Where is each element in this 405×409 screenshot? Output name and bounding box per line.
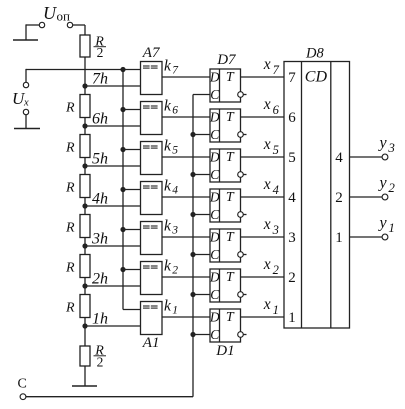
svg-text:5h: 5h: [92, 151, 108, 168]
svg-text:6: 6: [288, 110, 296, 126]
svg-text:7h: 7h: [92, 71, 108, 88]
resistor R4: [80, 215, 90, 238]
svg-text:T: T: [226, 190, 235, 205]
svg-text:C: C: [210, 127, 220, 142]
svg-text:6: 6: [172, 105, 178, 117]
wire Ux bus vertical: [122, 70, 124, 310]
wire clock to D2 C input: [193, 294, 210, 296]
comparator A6: [141, 102, 163, 135]
svg-text:k: k: [164, 98, 172, 115]
wire Ux drop: [25, 69, 27, 82]
svg-text:D8: D8: [305, 46, 324, 62]
junction node 5h: [82, 163, 87, 168]
svg-text:1: 1: [335, 230, 343, 246]
svg-text:C: C: [210, 327, 220, 342]
wire x6 flip-flop output: [241, 116, 285, 118]
flip-flop D3: [210, 229, 241, 262]
svg-text:R: R: [65, 221, 75, 236]
flip-flop D5: [210, 149, 241, 182]
comparator A1: [141, 302, 163, 335]
svg-text:1h: 1h: [92, 311, 108, 328]
junction node 3h: [82, 243, 87, 248]
svg-text:3: 3: [387, 140, 395, 155]
junction Ux bus row 6: [120, 107, 125, 112]
svg-text:4: 4: [273, 183, 279, 197]
svg-text:1: 1: [388, 220, 395, 235]
wire clock to D7 C input: [193, 94, 210, 96]
priority encoder D8 body: [284, 62, 350, 329]
svg-text:D: D: [209, 310, 220, 325]
junction node 2h: [82, 283, 87, 288]
svg-text:7: 7: [172, 65, 179, 77]
svg-text:2: 2: [388, 180, 395, 195]
inverted output bubble D2: [243, 294, 246, 296]
svg-text:3: 3: [288, 230, 296, 246]
wire k2 comparator output: [162, 276, 210, 278]
junction Ux bus row 3: [120, 227, 125, 232]
svg-text:R: R: [65, 181, 75, 196]
svg-text:7: 7: [288, 70, 296, 86]
wire clock bus horizontal: [26, 396, 193, 398]
ground (Ux): [14, 128, 40, 130]
resistor R2: [80, 295, 90, 318]
junction Ux bus row 7: [120, 67, 125, 72]
resistor R6: [80, 135, 90, 158]
svg-text:T: T: [226, 150, 235, 165]
svg-text:k: k: [164, 138, 172, 155]
svg-text:1: 1: [273, 303, 279, 317]
svg-text:2: 2: [97, 354, 104, 369]
wire Ux bus to comparator A5: [123, 149, 141, 151]
resistor R/2 top: [80, 35, 90, 57]
svg-text:5: 5: [172, 145, 178, 157]
svg-text:k: k: [164, 258, 172, 275]
wire Ux bus to comparator A3: [123, 229, 141, 231]
svg-text:x: x: [263, 216, 271, 233]
wire Ux bus to comparator A2: [123, 269, 141, 271]
junction node 6h: [82, 123, 87, 128]
wire Uop left to ground: [26, 24, 39, 26]
svg-text:T: T: [226, 70, 235, 85]
svg-text:4: 4: [172, 185, 178, 197]
svg-text:T: T: [226, 310, 235, 325]
inverted output bubble D4: [243, 214, 246, 216]
flip-flop D1: [210, 309, 241, 342]
svg-text:C: C: [210, 287, 220, 302]
svg-text:y: y: [378, 215, 388, 232]
wire clock bus vertical: [192, 95, 194, 397]
svg-text:D7: D7: [216, 52, 237, 68]
junction clock bus row 1: [190, 332, 195, 337]
wire Ux horizontal: [26, 69, 123, 71]
svg-text:5: 5: [273, 143, 279, 157]
wire Ux bus to comparator A4: [123, 189, 141, 191]
wire k7 comparator output: [162, 76, 210, 78]
svg-text:T: T: [226, 230, 235, 245]
svg-text:D: D: [209, 150, 220, 165]
junction clock bus row 6: [190, 132, 195, 137]
svg-text:k: k: [164, 298, 172, 315]
wire ladder vertical: [84, 25, 86, 386]
wire k6 comparator output: [162, 116, 210, 118]
wire Ux bus to comparator A7: [123, 69, 141, 71]
wire Ux bus to comparator A1: [123, 309, 141, 311]
comparator A7: [141, 62, 163, 95]
comparator A3: [141, 222, 163, 255]
svg-text:C: C: [210, 87, 220, 102]
terminal Uop right: [67, 22, 72, 27]
wire y1 output: [350, 236, 383, 238]
flip-flop D6: [210, 109, 241, 142]
wire k5 comparator output: [162, 156, 210, 158]
svg-text:3: 3: [171, 225, 178, 237]
wire tap 1h to comparator: [85, 325, 141, 327]
wire k1 comparator output: [162, 316, 210, 318]
junction Ux bus row 5: [120, 147, 125, 152]
ground (bottom): [72, 385, 97, 387]
svg-text:2: 2: [97, 45, 104, 60]
svg-text:CD: CD: [305, 69, 328, 86]
wire clock to D1 C input: [193, 334, 210, 336]
svg-text:k: k: [164, 178, 172, 195]
wire clock to D4 C input: [193, 214, 210, 216]
svg-text:x: x: [263, 56, 271, 73]
svg-text:A7: A7: [142, 45, 161, 61]
svg-text:D: D: [209, 190, 220, 205]
wire Uop right to ladder: [73, 24, 85, 26]
svg-text:U: U: [43, 3, 57, 23]
junction clock bus row 2: [190, 292, 195, 297]
svg-text:C: C: [210, 167, 220, 182]
wire x4 flip-flop output: [241, 196, 285, 198]
wire x3 flip-flop output: [241, 236, 285, 238]
wire y2 output: [350, 196, 383, 198]
svg-text:x: x: [263, 96, 271, 113]
svg-text:1: 1: [172, 305, 178, 317]
svg-text:7: 7: [273, 63, 280, 77]
junction Ux bus row 2: [120, 267, 125, 272]
resistor R7: [80, 95, 90, 118]
wire tap 6h to comparator: [85, 125, 141, 127]
svg-text:4: 4: [288, 190, 296, 206]
wire Ux bottom to ground: [25, 115, 27, 129]
wire x1 flip-flop output: [241, 316, 285, 318]
flip-flop D4: [210, 189, 241, 222]
wire tap 3h to comparator: [85, 245, 141, 247]
svg-text:2: 2: [335, 190, 343, 206]
wire k4 comparator output: [162, 196, 210, 198]
comparator A5: [141, 142, 163, 175]
wire Ux bus to comparator A6: [123, 109, 141, 111]
terminal Ux top: [23, 82, 28, 87]
terminal y2: [382, 194, 388, 200]
svg-text:2h: 2h: [92, 271, 108, 288]
svg-text:R: R: [65, 141, 75, 156]
junction node 7h: [82, 83, 87, 88]
comparator A2: [141, 262, 163, 295]
junction node 4h: [82, 203, 87, 208]
svg-text:1: 1: [288, 310, 296, 326]
junction clock bus row 5: [190, 172, 195, 177]
wire clock to D3 C input: [193, 254, 210, 256]
resistor R3: [80, 255, 90, 278]
svg-text:y: y: [378, 175, 388, 192]
terminal y3: [382, 154, 388, 160]
junction Ux bus row 4: [120, 187, 125, 192]
wire y3 output: [350, 156, 383, 158]
svg-text:4: 4: [335, 150, 343, 166]
svg-text:D: D: [209, 70, 220, 85]
wire x2 flip-flop output: [241, 276, 285, 278]
terminal C: [20, 394, 26, 400]
svg-text:C: C: [210, 207, 220, 222]
svg-text:D1: D1: [215, 343, 234, 359]
flip-flop D7: [210, 69, 241, 102]
svg-text:D: D: [209, 110, 220, 125]
svg-text:k: k: [164, 58, 172, 75]
svg-text:x: x: [263, 296, 271, 313]
svg-text:A1: A1: [142, 335, 160, 351]
wire clock to D6 C input: [193, 134, 210, 136]
comparator A4: [141, 182, 163, 215]
resistor R5: [80, 175, 90, 198]
svg-text:3h: 3h: [91, 231, 108, 248]
svg-text:y: y: [378, 135, 388, 152]
svg-text:6h: 6h: [92, 111, 108, 128]
resistor R/2 bottom: [80, 346, 90, 366]
svg-text:x: x: [263, 256, 271, 273]
inverted output bubble D7: [243, 94, 246, 96]
junction node 1h: [82, 323, 87, 328]
junction clock bus row 3: [190, 252, 195, 257]
svg-text:D: D: [209, 230, 220, 245]
svg-text:C: C: [18, 377, 27, 392]
flip-flop D2: [210, 269, 241, 302]
svg-text:2: 2: [273, 263, 279, 277]
svg-text:5: 5: [288, 150, 296, 166]
wire k3 comparator output: [162, 236, 210, 238]
wire clock to D5 C input: [193, 174, 210, 176]
terminal Uop left: [39, 22, 44, 27]
terminal y1: [382, 234, 388, 240]
wire x7 flip-flop output: [241, 76, 285, 78]
wire tap 4h to comparator: [85, 205, 141, 207]
svg-text:x: x: [23, 98, 29, 109]
svg-text:x: x: [263, 136, 271, 153]
svg-text:R: R: [65, 261, 75, 276]
wire tap 5h to comparator: [85, 165, 141, 167]
svg-text:4h: 4h: [92, 191, 108, 208]
wire tap 2h to comparator: [85, 285, 141, 287]
svg-text:x: x: [263, 176, 271, 193]
svg-text:T: T: [226, 110, 235, 125]
svg-text:6: 6: [273, 103, 280, 117]
inverted output bubble D5: [243, 174, 246, 176]
inverted output bubble D1: [243, 334, 246, 336]
wire tap 7h to comparator: [85, 85, 141, 87]
inverted output bubble D6: [243, 134, 246, 136]
svg-text:2: 2: [288, 270, 296, 286]
wire x5 flip-flop output: [241, 156, 285, 158]
svg-text:оп: оп: [57, 8, 71, 23]
svg-text:3: 3: [272, 223, 279, 237]
svg-text:C: C: [210, 247, 220, 262]
junction clock bus row 4: [190, 212, 195, 217]
svg-text:R: R: [65, 101, 75, 116]
inverted output bubble D3: [243, 254, 246, 256]
svg-text:D: D: [209, 270, 220, 285]
svg-text:R: R: [65, 301, 75, 316]
terminal Ux bottom: [23, 109, 28, 114]
svg-text:T: T: [226, 270, 235, 285]
svg-text:2: 2: [172, 265, 178, 277]
svg-text:k: k: [164, 218, 172, 235]
ground (top left): [13, 39, 38, 41]
